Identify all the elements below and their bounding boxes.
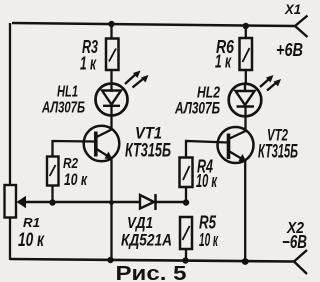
svg-text:X1: X1 [284,1,301,17]
label VD1 type КД521А [121,231,172,250]
node bottom junction VT1 emitter [107,257,113,263]
label R6 [216,37,235,57]
label R3 [82,37,98,57]
svg-text:АЛ307Б: АЛ307Б [174,100,220,118]
label R6 value 1к [215,52,232,72]
connector X2 [294,250,307,274]
resistor R6 [240,26,253,84]
LED HL1 [96,71,149,127]
label HL2 type АЛ307Б [174,100,220,118]
connector X1 [295,16,308,38]
label VT1 type КТ315Б [125,141,171,162]
svg-text:КТ315Б: КТ315Б [258,142,298,163]
node R2 bottom junction [49,199,55,205]
svg-text:1 к: 1 к [215,52,232,72]
transistor VT2 [218,127,254,262]
wire top rail [12,23,295,26]
svg-text:Рис. 5: Рис. 5 [116,263,187,282]
label R2 [63,155,79,172]
svg-text:10 к: 10 к [199,230,218,250]
label R5 [199,213,217,233]
transistor VT1 [84,126,120,260]
svg-text:R2: R2 [63,155,79,172]
node bottom junction VT2 emitter [242,258,249,265]
label X2 [286,220,304,237]
label R2 value 10 к [64,171,88,189]
resistor R5 [180,217,192,260]
wire VD1 cathode to R4/R5 node [156,201,186,203]
wire left vertical [9,23,11,186]
svg-text:10 к: 10 к [64,171,88,189]
wire bottom rail [10,259,294,262]
svg-text:−6В: −6В [282,232,307,252]
diode VD1 [140,194,156,210]
svg-text:КТ315Б: КТ315Б [125,141,171,162]
label R1 [23,215,40,230]
label HL2 [197,85,220,102]
node top junction of R6 [243,23,249,29]
label VT2 type КТ315Б [258,142,298,163]
svg-text:VД1: VД1 [127,215,153,232]
label −6В [282,232,307,252]
label R4 value 10 к [196,171,218,191]
resistor R3 [106,24,119,84]
caption Рис. 5 [116,263,187,282]
svg-text:HL1: HL1 [57,84,78,101]
svg-text:R1: R1 [23,215,40,230]
svg-text:10 к: 10 к [18,230,45,251]
label +6В [276,40,303,60]
svg-text:КД521А: КД521А [121,231,172,250]
potentiometer R1 [5,185,27,218]
wire R1 bottom to bottom rail [9,217,11,260]
svg-text:АЛ307Б: АЛ307Б [41,100,85,117]
label R1 value 10 к [18,230,45,251]
label R4 [197,157,213,177]
node bottom junction R5 [182,257,188,263]
label VT2 [267,126,288,145]
label VD1 [127,215,153,232]
LED HL2 [229,75,281,127]
label R3 value 1к [80,54,97,74]
label X1 [284,1,301,17]
node top junction of R3 [108,21,114,27]
label R5 value 10 к [199,230,218,250]
node R4/R5/VD1 junction [183,199,189,205]
node emitter crossing junction [109,200,114,205]
label HL1 [57,84,78,101]
svg-text:+6В: +6В [276,40,303,60]
resistor R4 [180,141,229,203]
label VT1 [135,124,162,143]
svg-text:10 к: 10 к [196,171,218,191]
svg-text:1 к: 1 к [80,54,97,74]
label HL1 type АЛ307Б [41,100,85,117]
resistor R2 [47,141,95,202]
wire mid horizontal (R1 wiper to VD1 anode) [24,201,140,203]
